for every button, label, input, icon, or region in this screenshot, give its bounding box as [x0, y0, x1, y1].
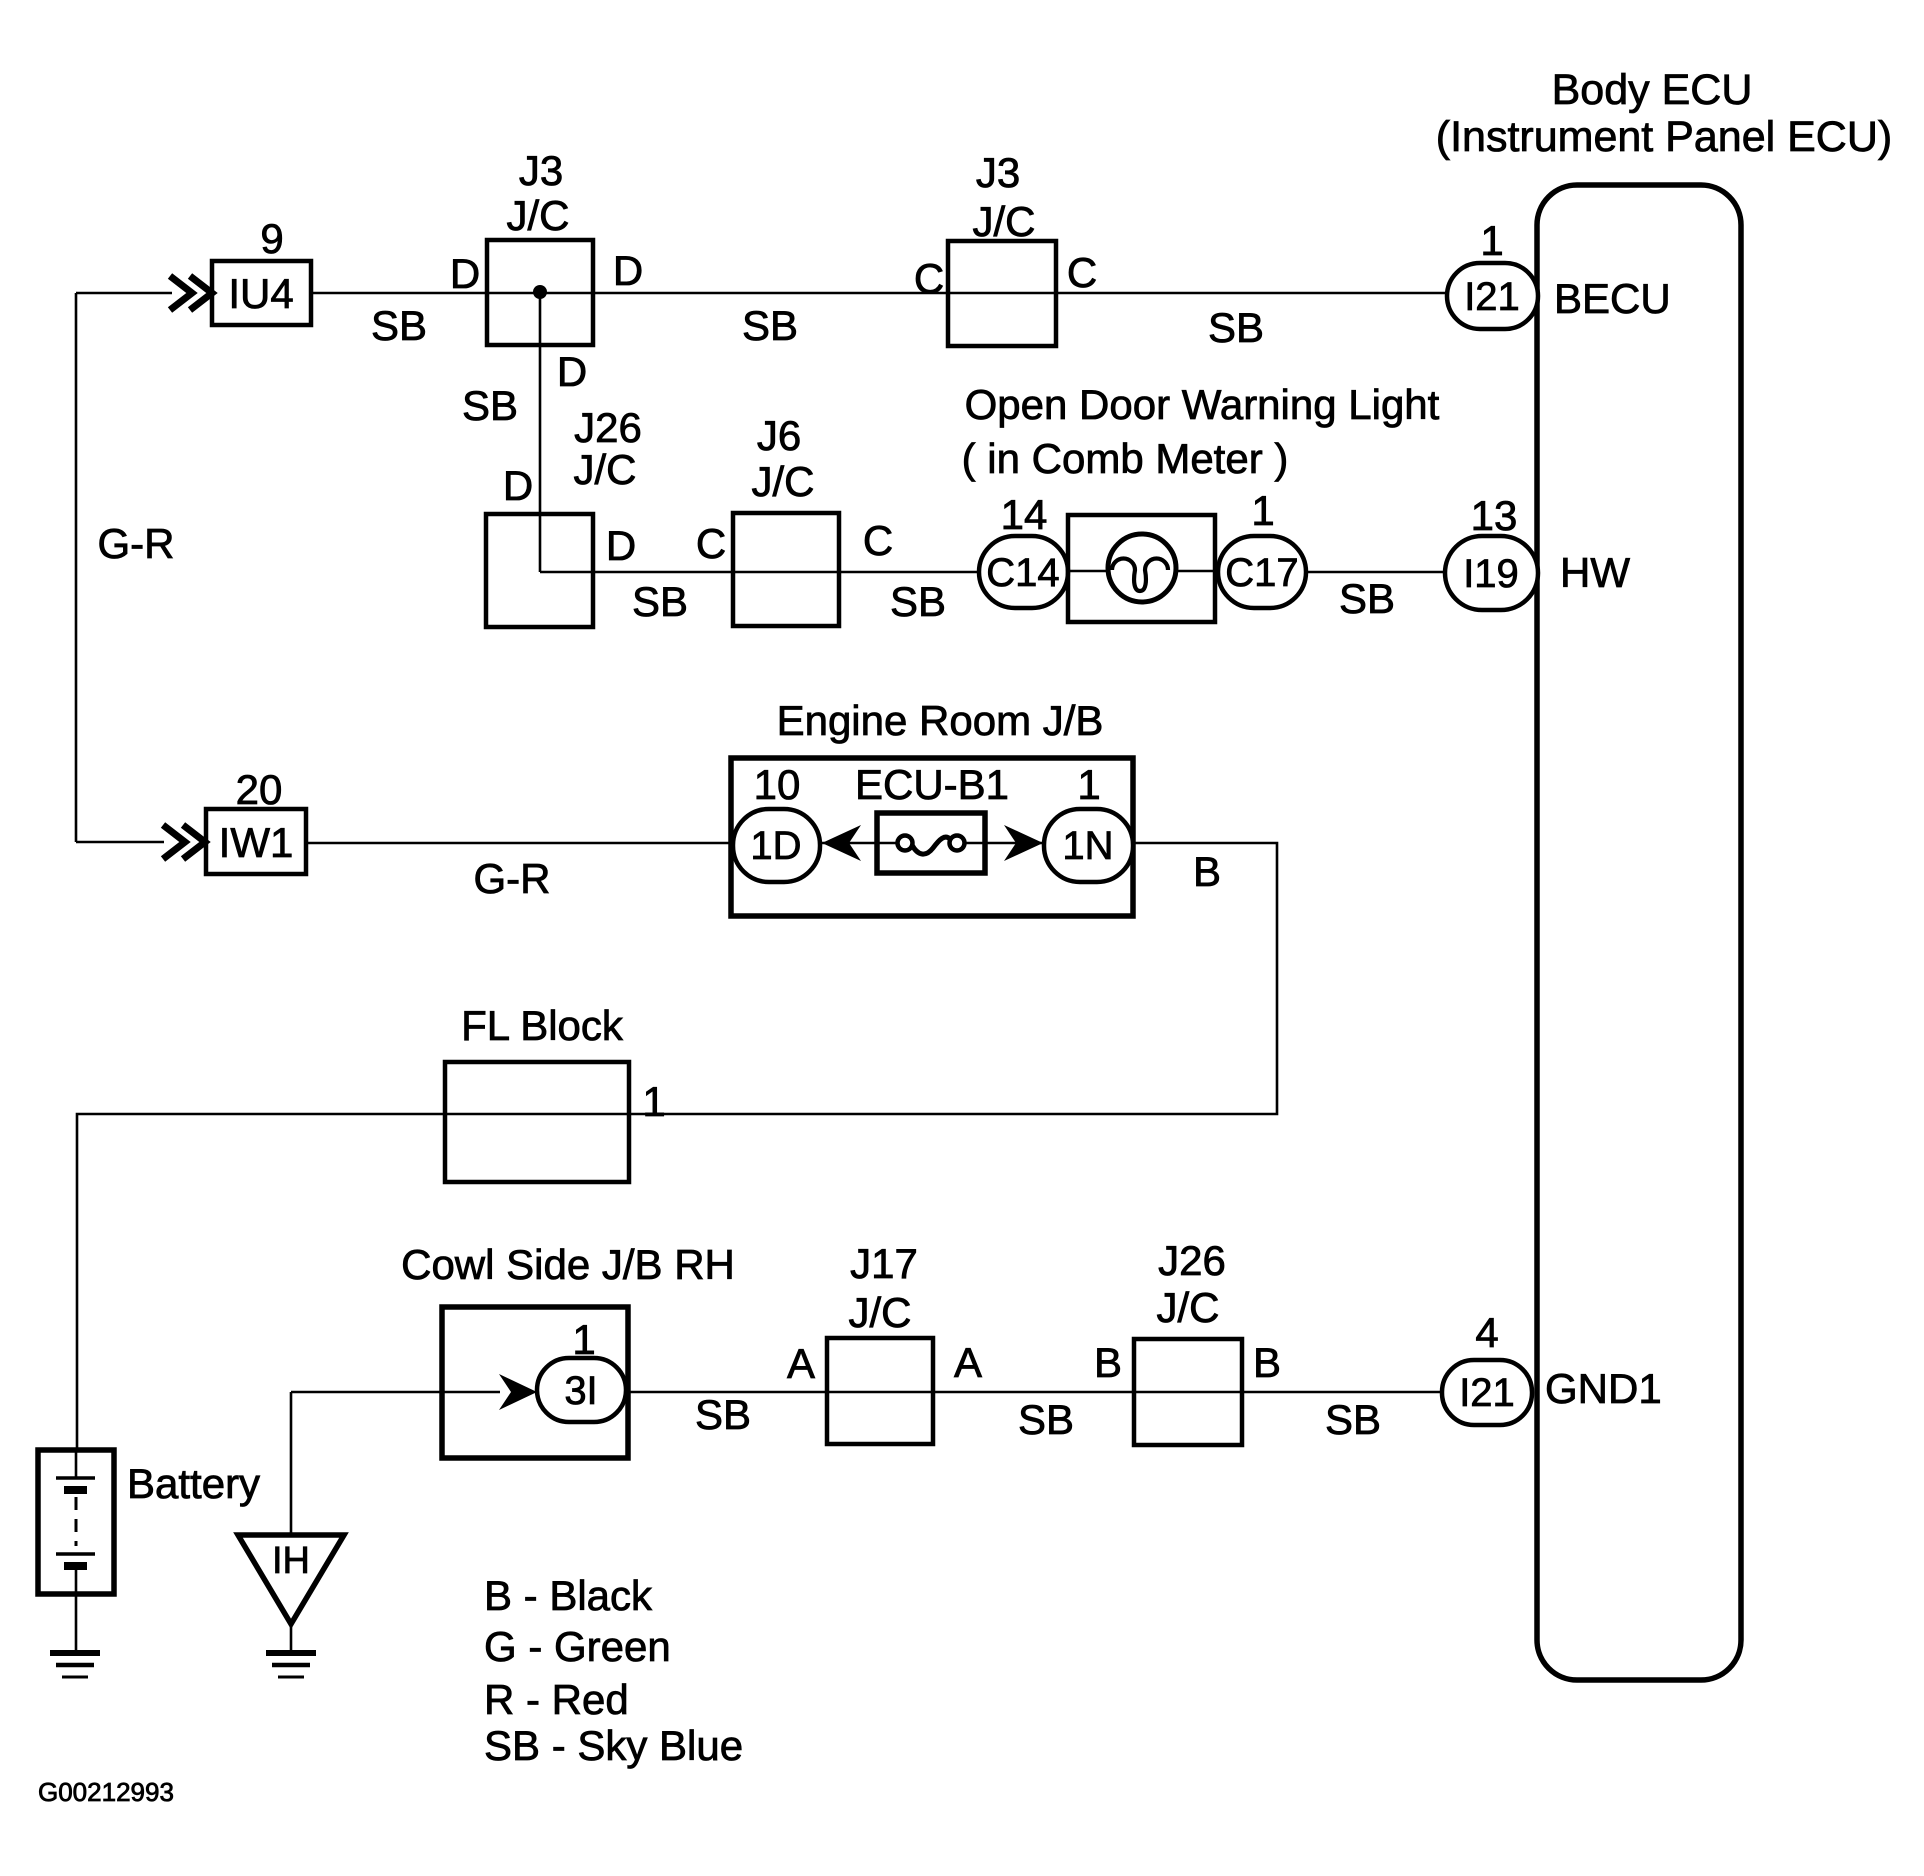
- svg-text:I21: I21: [1459, 1371, 1515, 1415]
- arrow into 3I: [499, 1374, 537, 1410]
- svg-text:IW1: IW1: [219, 819, 294, 866]
- lamp bulb: [1108, 534, 1176, 602]
- junction box J17 J/C: [827, 1338, 933, 1444]
- connector C14 pin 14: [979, 536, 1068, 608]
- svg-text:C: C: [863, 517, 893, 564]
- battery: [38, 1450, 114, 1594]
- ground triangle IH: [238, 1535, 344, 1624]
- svg-text:A: A: [787, 1340, 815, 1387]
- wire SB from J26 through J6 to C14: [540, 571, 979, 574]
- svg-text:1: 1: [1077, 761, 1100, 808]
- svg-text:I19: I19: [1463, 552, 1519, 596]
- svg-text:B: B: [1253, 1339, 1281, 1386]
- junction box J26 J/C lower: [1134, 1339, 1242, 1445]
- ground (battery): [50, 1650, 100, 1656]
- svg-text:SB: SB: [742, 302, 798, 349]
- connector 1D: [733, 809, 820, 882]
- wire B from 1N down to FL Block run and battery: [77, 843, 1277, 1450]
- wire top feed to IU4 chevrons: [76, 292, 172, 295]
- svg-text:GND1: GND1: [1545, 1365, 1662, 1412]
- svg-text:4: 4: [1475, 1309, 1498, 1356]
- svg-text:D: D: [613, 247, 643, 294]
- svg-text:HW: HW: [1560, 549, 1630, 596]
- svg-text:Cowl Side J/B RH: Cowl Side J/B RH: [401, 1241, 735, 1288]
- svg-text:( in Comb Meter ): ( in Comb Meter ): [962, 435, 1289, 482]
- svg-text:B - Black: B - Black: [484, 1572, 653, 1619]
- svg-text:ECU-B1: ECU-B1: [855, 761, 1009, 808]
- svg-text:C17: C17: [1225, 551, 1298, 595]
- Engine Room J/B box: [731, 758, 1133, 916]
- junction box J3 J/C (C) second: [948, 241, 1056, 346]
- svg-text:FL Block: FL Block: [461, 1002, 624, 1049]
- svg-text:SB: SB: [1208, 304, 1264, 351]
- connector C17 pin 1: [1218, 536, 1306, 608]
- wire SB 3I to I21 GND1: [626, 1391, 1442, 1394]
- fuse ECU-B1 box: [877, 813, 985, 873]
- junction box J26 J/C (D): [486, 514, 593, 627]
- arrow into 1D: [822, 825, 861, 861]
- wire through lamp box: [1068, 570, 1218, 573]
- connector 3I pin 1: [537, 1358, 626, 1422]
- svg-text:J/C: J/C: [574, 446, 637, 493]
- svg-text:Engine Room J/B: Engine Room J/B: [777, 697, 1104, 744]
- connector I21 pin 1 (BECU): [1447, 263, 1538, 329]
- svg-text:SB: SB: [890, 578, 946, 625]
- wire IH tail: [290, 1624, 293, 1653]
- svg-text:1: 1: [1251, 487, 1274, 534]
- svg-text:9: 9: [260, 215, 283, 262]
- wire SB C17 to I19: [1306, 571, 1445, 574]
- svg-text:G - Green: G - Green: [484, 1623, 671, 1670]
- svg-text:(Instrument Panel ECU): (Instrument Panel ECU): [1436, 113, 1892, 161]
- svg-text:G-R: G-R: [98, 520, 175, 567]
- svg-text:R - Red: R - Red: [484, 1676, 629, 1723]
- svg-text:IU4: IU4: [228, 270, 293, 317]
- svg-text:1: 1: [642, 1078, 665, 1125]
- junction box J3 J/C (D): [487, 240, 593, 345]
- svg-text:1: 1: [572, 1316, 595, 1363]
- svg-text:BECU: BECU: [1554, 275, 1671, 322]
- svg-text:J6: J6: [757, 412, 801, 459]
- node chevrons into IW1: [163, 825, 205, 859]
- svg-text:G00212993: G00212993: [38, 1777, 174, 1807]
- svg-text:C14: C14: [986, 551, 1059, 595]
- wire riser to IH: [290, 1392, 293, 1535]
- svg-text:J26: J26: [574, 404, 642, 451]
- wire feed to IW1 chevrons: [76, 841, 164, 844]
- svg-text:13: 13: [1471, 492, 1518, 539]
- svg-text:D: D: [557, 348, 587, 395]
- arrow into 1N: [1004, 825, 1043, 861]
- svg-text:C: C: [914, 255, 944, 302]
- svg-text:SB: SB: [695, 1391, 751, 1438]
- svg-text:J/C: J/C: [752, 458, 815, 505]
- connector I19 pin 13 (HW): [1445, 536, 1538, 610]
- svg-text:Battery: Battery: [127, 1460, 260, 1507]
- svg-text:I21: I21: [1464, 275, 1520, 319]
- svg-text:C: C: [1067, 249, 1097, 296]
- ECU body (Body ECU rounded rectangle): [1537, 185, 1741, 1680]
- node chevrons into IU4: [170, 276, 212, 310]
- svg-text:SB: SB: [1018, 1396, 1074, 1443]
- svg-text:G-R: G-R: [474, 855, 551, 902]
- svg-text:D: D: [606, 522, 636, 569]
- svg-text:SB: SB: [462, 382, 518, 429]
- svg-text:C: C: [696, 520, 726, 567]
- ground (IH): [266, 1650, 316, 1656]
- svg-text:1: 1: [1480, 217, 1503, 264]
- svg-text:D: D: [503, 462, 533, 509]
- svg-text:J17: J17: [850, 1240, 918, 1287]
- connector IW1 box: [206, 809, 306, 874]
- wire G-R IW1 to 1D: [306, 842, 733, 845]
- lamp box (Open Door Warning Light in Comb Meter): [1068, 515, 1215, 622]
- svg-text:20: 20: [236, 766, 283, 813]
- svg-text:SB: SB: [632, 578, 688, 625]
- svg-text:Open Door Warning Light: Open Door Warning Light: [965, 381, 1440, 428]
- Cowl Side J/B RH box: [442, 1307, 628, 1458]
- svg-text:14: 14: [1001, 491, 1048, 538]
- svg-text:SB - Sky Blue: SB - Sky Blue: [484, 1722, 743, 1769]
- wire SB drop from J3 dot to J26: [539, 292, 542, 572]
- svg-text:SB: SB: [371, 302, 427, 349]
- svg-text:IH: IH: [272, 1540, 310, 1582]
- svg-text:A: A: [954, 1339, 982, 1386]
- svg-text:10: 10: [754, 761, 801, 808]
- FL Block box: [445, 1062, 629, 1182]
- connector I21 pin 4 (GND1): [1442, 1360, 1532, 1425]
- svg-text:SB: SB: [1339, 575, 1395, 622]
- svg-text:J/C: J/C: [507, 192, 570, 239]
- svg-text:Body ECU: Body ECU: [1552, 66, 1753, 114]
- svg-text:D: D: [450, 250, 480, 297]
- svg-text:J/C: J/C: [1157, 1284, 1220, 1331]
- svg-text:J/C: J/C: [849, 1289, 912, 1336]
- svg-text:J3: J3: [519, 147, 563, 194]
- svg-text:3I: 3I: [564, 1369, 597, 1413]
- svg-text:SB: SB: [1325, 1396, 1381, 1443]
- junction dot in J3: [533, 285, 547, 299]
- svg-text:J/C: J/C: [973, 198, 1036, 245]
- wire left G-R riser: [75, 293, 78, 842]
- svg-text:1N: 1N: [1062, 824, 1113, 868]
- wire SB from IU4 through J3 boxes to I21: [311, 292, 1447, 295]
- connector 1N: [1044, 809, 1133, 882]
- svg-text:B: B: [1193, 848, 1221, 895]
- wire IH to Cowl Side J/B: [291, 1391, 500, 1394]
- svg-text:J26: J26: [1158, 1237, 1226, 1284]
- svg-text:1D: 1D: [750, 824, 801, 868]
- junction box J6 J/C: [733, 513, 839, 626]
- svg-text:B: B: [1094, 1339, 1122, 1386]
- wire through fuse: [820, 842, 1044, 845]
- svg-text:J3: J3: [976, 149, 1020, 196]
- connector IU4 box: [212, 261, 311, 325]
